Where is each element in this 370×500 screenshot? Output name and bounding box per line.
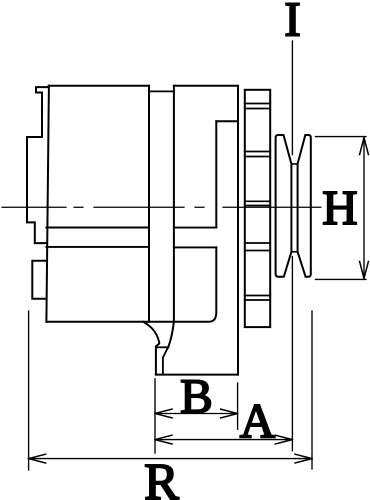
mounting lug lower-left — [32, 261, 46, 299]
svg-text:H: H — [322, 180, 357, 235]
foot left arc — [143, 322, 159, 375]
fan blade band 1 — [245, 104, 270, 109]
H extension lines — [316, 137, 367, 280]
fan blade band 3 — [245, 201, 270, 205]
B right extension line — [237, 383, 239, 429]
stator lines right — [174, 228, 216, 248]
rear bracket left edge — [173, 86, 175, 322]
foot inner slant — [163, 347, 168, 374]
centerline — [2, 206, 321, 208]
rear bracket inner top connector — [216, 120, 238, 122]
front housing right edge — [148, 86, 150, 322]
rear bracket top and right edge — [174, 86, 238, 375]
front housing outer profile (top tab, left steps) — [27, 86, 149, 243]
foot right curve — [168, 322, 174, 348]
rear bracket inner vertical upper — [215, 121, 217, 227]
dimension line I — [291, 41, 293, 451]
svg-text:I: I — [284, 0, 300, 47]
R left extension line — [28, 311, 30, 470]
fan blade band 5 — [245, 296, 270, 301]
pulley hub caps — [291, 164, 297, 252]
stator lines left — [46, 228, 149, 247]
svg-text:R: R — [144, 454, 179, 500]
pulley left disc with V-groove wall — [276, 135, 292, 277]
fan blade band 2 — [245, 152, 270, 157]
B/A left extension line — [154, 379, 156, 453]
svg-text:B: B — [180, 369, 213, 424]
foot inner horizontal — [157, 346, 169, 348]
R right extension line — [311, 311, 313, 469]
svg-text:A: A — [240, 393, 276, 448]
R dimension line with arrows — [29, 458, 312, 460]
front housing face line — [46, 86, 49, 322]
rear bracket bottom edge — [156, 374, 238, 376]
fan outline — [245, 90, 270, 327]
ledge between housing and rear bracket — [149, 90, 174, 92]
H dimension line with arrows — [363, 138, 365, 279]
front housing bottom edge with rounded step to inner vertical — [46, 247, 216, 321]
pulley right disc — [298, 135, 311, 277]
A dimension line with arrows — [155, 439, 292, 441]
fan blade band 4 — [245, 243, 270, 251]
B dimension line with arrows — [155, 413, 238, 415]
